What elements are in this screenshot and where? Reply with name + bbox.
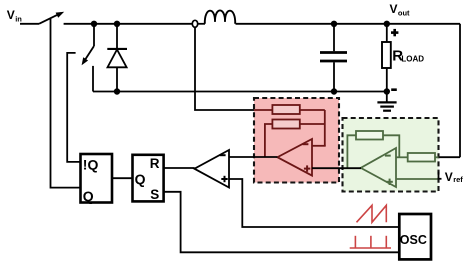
label U2 minus	[385, 155, 391, 157]
wire top rail right	[236, 23, 461, 25]
label Vout	[390, 2, 411, 18]
wire sense to error amp resistor	[436, 156, 460, 158]
svg-text:V: V	[445, 170, 453, 184]
wire minus input stub	[312, 145, 326, 147]
switch S2 arrowhead	[82, 57, 89, 65]
svg-text:!Q: !Q	[83, 157, 99, 173]
resistor RLOAD top wire	[386, 24, 388, 42]
wire switch node feedback	[195, 27, 272, 110]
wire plus row	[396, 178, 438, 180]
switch S2 blade	[83, 46, 94, 63]
svg-text:out: out	[398, 9, 410, 18]
wire driver to latch	[112, 177, 133, 179]
resistor R1 (red box top)	[272, 105, 299, 114]
resistor RLOAD body	[382, 42, 391, 68]
label U1 plus	[304, 168, 310, 170]
wire bottom rail	[93, 91, 387, 93]
resistor R4 (green input)	[408, 153, 435, 162]
svg-text:OSC: OSC	[400, 233, 427, 247]
capacitor C1 top wire	[333, 24, 335, 51]
ground stub	[386, 92, 388, 103]
ground	[377, 102, 396, 110]
wire error amp output to sense amp plus	[312, 167, 361, 169]
driver block (dead-time box)	[81, 154, 113, 203]
svg-text:LOAD: LOAD	[401, 55, 424, 64]
wire comparator plus to sawtooth	[229, 179, 399, 227]
wire R3 left to output	[347, 135, 356, 168]
svg-text:Q: Q	[83, 188, 94, 204]
SR latch box	[133, 155, 164, 202]
wire latch S to oscillator	[164, 192, 400, 253]
label Vref	[445, 170, 463, 184]
wire R4 right	[435, 156, 439, 158]
wire R2 left to output	[265, 124, 273, 157]
node switch-node circle	[192, 20, 197, 27]
wire Vout sense drop	[459, 24, 461, 157]
switch S1 arrowhead	[56, 12, 65, 18]
svg-text:R: R	[150, 156, 160, 171]
wire Vin lead	[20, 23, 39, 25]
wire R3 right to minus	[383, 135, 399, 157]
pulse waveform	[350, 236, 391, 248]
wire diode top	[116, 24, 118, 49]
svg-text:Q: Q	[135, 171, 146, 187]
label RLOAD	[392, 48, 424, 65]
svg-text:V: V	[390, 2, 398, 16]
switch S2 upper stem	[93, 24, 95, 46]
wire S2 control stub	[67, 53, 80, 162]
wire sense amp output to comparator minus	[229, 156, 277, 158]
current sense block (red dashed box)	[254, 98, 339, 183]
label U2 plus	[386, 181, 392, 183]
resistor R2 (red box bottom)	[272, 120, 299, 129]
label U3 plus	[221, 176, 227, 182]
svg-text:V: V	[7, 8, 15, 22]
label Vin	[7, 8, 22, 23]
wire R1 right	[300, 109, 325, 111]
label minus at RLOAD	[391, 88, 397, 91]
wire right vertical to minus input	[324, 110, 326, 146]
wire comparator output to latch R	[164, 167, 195, 169]
svg-text:in: in	[15, 14, 22, 23]
wire diode bottom	[116, 67, 118, 91]
svg-text:ref: ref	[453, 175, 463, 184]
wire minus row	[396, 156, 408, 158]
wire S1 control vertical	[51, 19, 81, 188]
comparator U3 (points left)	[194, 150, 229, 188]
switch S1 blade	[39, 13, 61, 24]
label U1 minus	[303, 143, 309, 145]
label U3 minus	[220, 154, 226, 156]
wire R2 right	[300, 123, 325, 125]
capacitor C1 bottom wire	[333, 62, 335, 91]
op-amp U2 (error amp, points left)	[361, 148, 396, 187]
resistor R3 (green feedback)	[356, 131, 383, 140]
junction dots top rail	[91, 21, 97, 27]
diode D1 triangle	[108, 50, 127, 68]
wire top rail left	[64, 23, 193, 25]
svg-text:S: S	[150, 187, 159, 202]
sawtooth waveform	[357, 205, 387, 222]
wire Vref tick	[438, 178, 442, 180]
resistor RLOAD bottom wire	[386, 68, 388, 92]
inductor L1	[205, 10, 235, 23]
junction dots bottom rail	[114, 88, 120, 94]
switch S2 lower contact	[92, 66, 94, 92]
capacitor C1 plates	[320, 51, 347, 54]
label plus at RLOAD	[391, 29, 398, 36]
error amp block (green dashed box)	[343, 118, 439, 192]
wire circle to inductor	[198, 23, 205, 25]
wire feed inside red box	[254, 109, 272, 111]
diode D1 cathode bar	[107, 48, 127, 50]
oscillator block OSC	[399, 214, 431, 259]
op-amp U1 (sense amp, points left)	[277, 139, 312, 176]
